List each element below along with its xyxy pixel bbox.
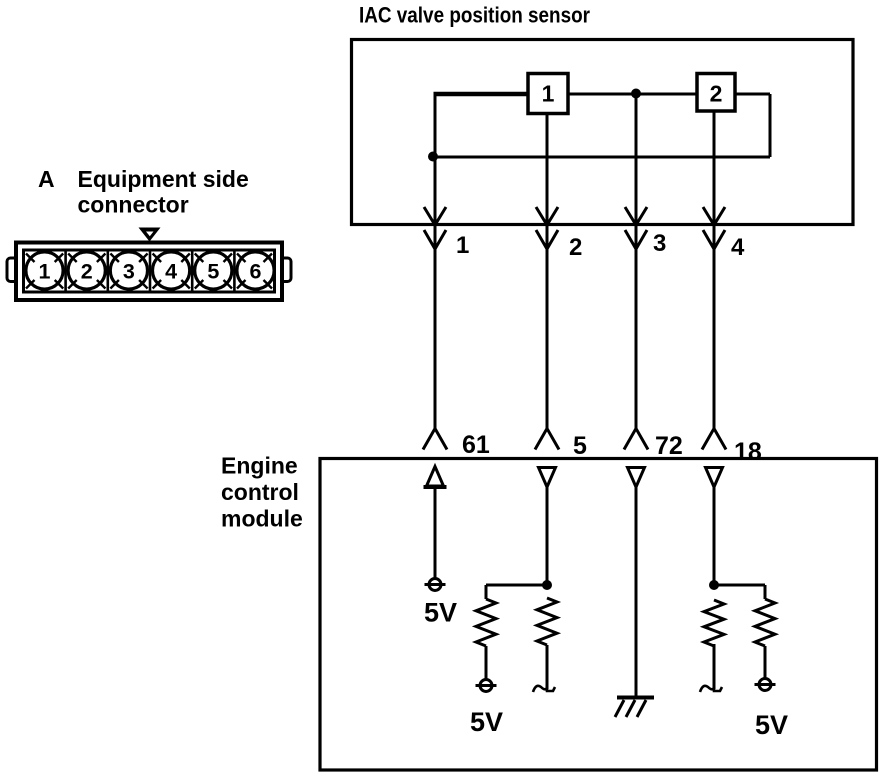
svg-text:1: 1 (39, 260, 51, 284)
output triangle pin 72 (628, 468, 645, 488)
svg-text:A: A (38, 166, 55, 192)
cavity circle 6 (237, 252, 274, 289)
svg-text:5: 5 (207, 260, 219, 284)
svg-text:Engine: Engine (221, 453, 298, 479)
cavity circle 4 (153, 252, 190, 289)
wire left branch drop (485, 585, 488, 599)
svg-text:4: 4 (165, 260, 177, 284)
5V terminal right branch (755, 679, 776, 691)
wire resistor to 5V terminal right (764, 646, 767, 679)
svg-text:2: 2 (710, 81, 723, 107)
ground (615, 698, 654, 718)
connector arrow pair wire 4 (703, 207, 725, 249)
terminal box 2 (697, 74, 735, 112)
connector arrow pair wire 2 (536, 207, 558, 249)
wire pin5 to junction (546, 487, 549, 585)
wire junction to right branch (714, 584, 765, 587)
wire pin18 to junction (713, 487, 716, 585)
svg-text:5V: 5V (755, 710, 788, 740)
svg-text:2: 2 (569, 234, 582, 261)
resistor R2 (under pin5 junction) (537, 598, 557, 645)
wire 1 vertical (434, 94, 437, 429)
wire resistor R3 down (713, 644, 716, 689)
wire right branch drop (764, 585, 767, 599)
5V terminal left branch (476, 680, 497, 692)
resistor R4 (pull-up right) (755, 599, 775, 646)
5V terminal pin 61 (425, 579, 446, 591)
cavity circle 5 (195, 252, 232, 289)
svg-text:module: module (221, 506, 303, 532)
svg-text:3: 3 (123, 260, 135, 284)
svg-text:2: 2 (81, 260, 93, 284)
svg-text:1: 1 (456, 232, 469, 259)
label Equipment side connector (78, 166, 249, 218)
wire lower horizontal (435, 156, 770, 159)
wire resistor R2 down (546, 645, 549, 689)
svg-text:4: 4 (731, 234, 745, 261)
node junction lower-left (428, 152, 438, 162)
wire 3 vertical (635, 94, 638, 430)
cavity circle 3 (110, 252, 147, 289)
connector latch tab left (7, 258, 16, 282)
wire pin72 to ground (635, 487, 638, 697)
label Engine control module (221, 453, 303, 532)
ECM connector fork pin 5 (535, 429, 559, 450)
input triangle pin 61 (427, 467, 444, 487)
svg-text:5V: 5V (470, 707, 503, 737)
cavity cell dividers (66, 252, 235, 291)
connector arrow pair wire 1 (424, 207, 446, 249)
output triangle pin 18 (706, 468, 723, 488)
svg-text:18: 18 (734, 438, 762, 466)
junction dot pin18 branch (709, 580, 719, 590)
output triangle pin 5 (539, 468, 556, 488)
svg-text:61: 61 (462, 431, 490, 459)
cavity corner chamfers (26, 254, 272, 289)
wire junction to left branch (486, 584, 547, 587)
wire 2 vertical (546, 113, 549, 429)
wire 4 vertical (713, 111, 716, 429)
svg-text:5V: 5V (424, 598, 457, 628)
node junction on top wire (631, 89, 641, 99)
wire resistor to 5V terminal (485, 646, 488, 680)
svg-text:3: 3 (653, 230, 666, 257)
wire-end curl (pin18 branch) (700, 686, 722, 692)
svg-text:72: 72 (655, 432, 683, 460)
wire right vertical drop (769, 94, 772, 157)
cavity circle 1 (26, 252, 63, 289)
Engine control module box (320, 459, 877, 771)
wire-end curl (pin5 branch) (533, 686, 555, 692)
junction dot pin5 branch (542, 580, 552, 590)
IAC valve position sensor box (352, 40, 854, 225)
ECM connector fork pin 61 (423, 429, 447, 450)
resistor R3 (under pin18 junction) (704, 600, 724, 646)
connector outer housing (16, 243, 282, 301)
resistor R1 (pull-up left) (476, 599, 496, 646)
connector inner wall (24, 250, 275, 292)
svg-text:IAC valve position sensor: IAC valve position sensor (359, 3, 590, 28)
svg-text:1: 1 (542, 81, 555, 107)
terminal box 1 (528, 74, 568, 114)
connector arrow pair wire 3 (625, 207, 647, 249)
triangle base bar (424, 485, 447, 489)
wire pin61 to 5V terminal (434, 488, 437, 578)
svg-text:6: 6 (250, 260, 262, 284)
cavity circle 2 (68, 252, 105, 289)
svg-text:5: 5 (573, 432, 587, 460)
connector latch tab right (282, 258, 291, 282)
connector index marker triangle (139, 228, 161, 242)
wire box2 to right corner (735, 93, 770, 96)
svg-text:control: control (221, 479, 299, 505)
wire box1 to box2 (568, 93, 697, 96)
svg-text:Equipment side: Equipment side (78, 166, 249, 192)
svg-text:connector: connector (78, 192, 189, 218)
wire top-left horizontal (434, 92, 529, 97)
ECM connector fork pin 72 (624, 429, 648, 450)
ECM connector fork pin 18 (702, 429, 726, 450)
